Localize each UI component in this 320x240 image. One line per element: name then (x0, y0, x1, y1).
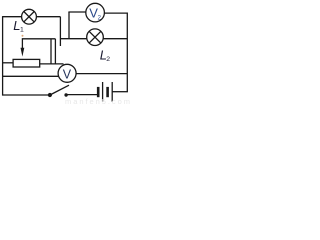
svg-text:manfen5.com: manfen5.com (65, 97, 132, 106)
svg-text:V: V (63, 68, 72, 82)
svg-text:1: 1 (20, 26, 24, 33)
svg-text:2: 2 (106, 56, 110, 63)
